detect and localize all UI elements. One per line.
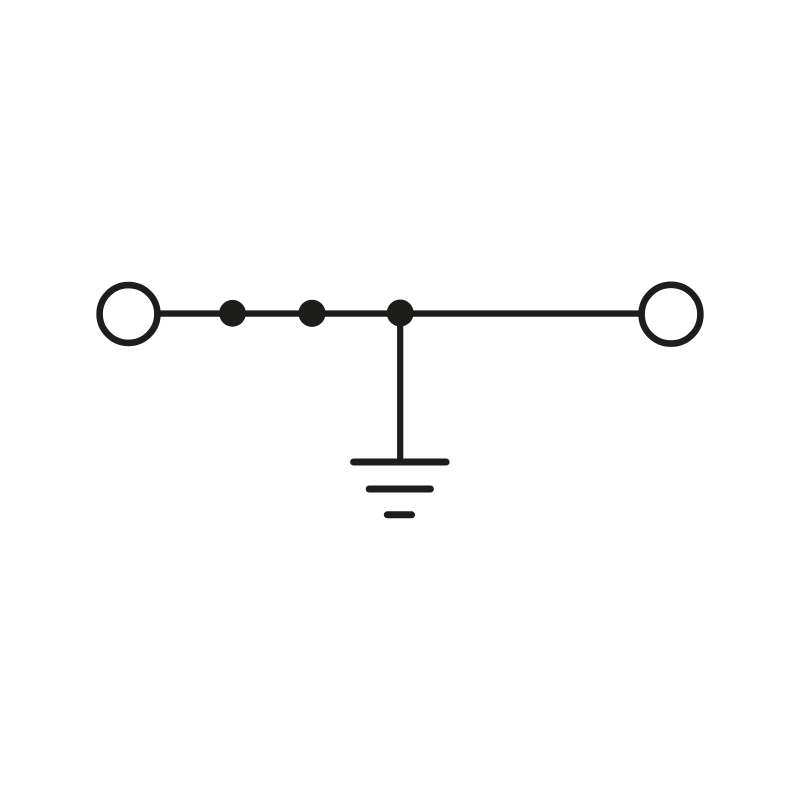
wire horizontal bus <box>158 310 640 316</box>
node dot 1 <box>219 300 246 327</box>
terminal circle left <box>100 285 158 343</box>
wire vertical to ground <box>397 313 403 462</box>
ground <box>354 462 447 515</box>
terminal circle right <box>642 285 701 344</box>
node dot 2 <box>298 300 325 327</box>
junction node <box>387 300 414 327</box>
